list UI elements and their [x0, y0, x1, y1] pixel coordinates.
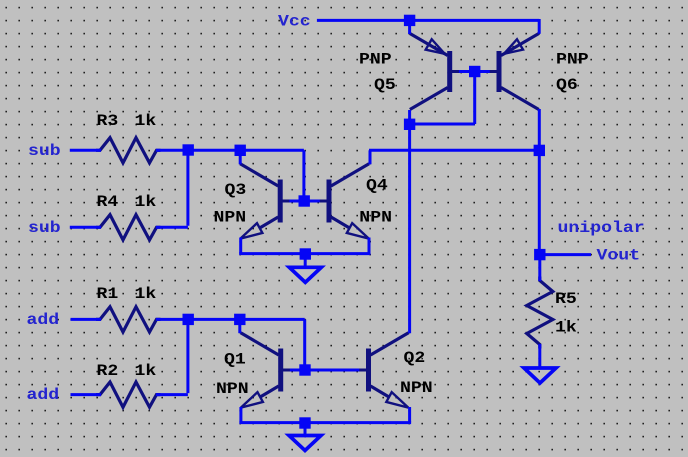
- wire row3 net to bases Q1Q2: [156, 319, 305, 370]
- node Q3Q4 base: [299, 195, 310, 206]
- wire row1 net to bases Q3Q4: [156, 150, 304, 201]
- svg-text:add: add: [27, 311, 60, 329]
- wire R4 to row1 node: [156, 150, 188, 227]
- svg-text:1k: 1k: [135, 285, 157, 303]
- node Q1Q2 emitter: [299, 417, 310, 428]
- resistor R5: [527, 277, 553, 349]
- wire main vertical Q5C to Q2C: [408, 123, 411, 333]
- wire add row3 lead: [71, 318, 102, 321]
- svg-text:Q2: Q2: [404, 349, 426, 367]
- svg-text:sub: sub: [28, 142, 61, 160]
- wire sub row2 lead: [70, 226, 101, 229]
- svg-text:Q6: Q6: [556, 76, 578, 94]
- svg-text:1k: 1k: [135, 362, 157, 380]
- wire Q6 collector down to Vout node: [538, 109, 541, 255]
- svg-text:Q4: Q4: [366, 177, 388, 195]
- transistor Q6: [485, 34, 539, 110]
- wire Q1-Q2 base rail: [290, 369, 359, 372]
- node Q1Q2 base: [299, 364, 310, 375]
- transistor Q5: [410, 34, 464, 110]
- svg-text:R1: R1: [97, 285, 119, 303]
- wire Q4 collector stub: [369, 150, 372, 164]
- wire Q5 collector node stub: [408, 110, 411, 125]
- svg-text:sub: sub: [28, 219, 61, 237]
- node Q5Q6 bases: [469, 66, 480, 77]
- svg-text:NPN: NPN: [216, 380, 249, 398]
- wire Q3 emitter stub: [239, 238, 242, 254]
- svg-text:Q5: Q5: [374, 76, 396, 94]
- node Q5 collector: [404, 119, 415, 130]
- wire add row4 lead: [71, 393, 102, 396]
- node Q4-Q6 collectors: [534, 145, 545, 156]
- wire base to collector tie Q5: [409, 72, 475, 125]
- resistor R1: [96, 307, 161, 332]
- svg-text:PNP: PNP: [556, 51, 589, 69]
- wire Q1 collector stub: [238, 319, 241, 333]
- ground R5: [524, 368, 556, 383]
- svg-text:Vcc: Vcc: [278, 13, 311, 31]
- svg-text:R4: R4: [97, 193, 119, 211]
- wire Vout lead: [545, 253, 591, 256]
- wire Vcc rail: [317, 19, 539, 34]
- wire Vout node to R5: [538, 254, 541, 281]
- svg-text:NPN: NPN: [359, 209, 392, 227]
- node Q1 collector-base tie: [234, 314, 245, 325]
- svg-text:1k: 1k: [555, 319, 577, 337]
- svg-text:R3: R3: [97, 112, 119, 130]
- svg-text:Vout: Vout: [597, 246, 641, 264]
- ground Q3Q4 emitters: [289, 267, 321, 282]
- svg-text:NPN: NPN: [214, 209, 247, 227]
- transistor Q2: [355, 333, 409, 408]
- wire R2 to row3 node: [156, 319, 188, 394]
- svg-text:Q1: Q1: [224, 351, 246, 369]
- resistor R4: [96, 215, 161, 240]
- svg-text:NPN: NPN: [400, 379, 433, 397]
- wire Q4C to Q6C rail: [369, 149, 539, 152]
- wire Q1Q2 emitter rail: [239, 421, 411, 424]
- wire Q4 emitter stub: [368, 238, 371, 254]
- svg-text:R2: R2: [97, 362, 119, 380]
- resistor R2: [96, 382, 161, 407]
- svg-text:1k: 1k: [135, 193, 157, 211]
- wire Q3 collector stub: [239, 150, 242, 164]
- wire ground stub Q1Q2: [304, 423, 307, 436]
- wire Q5-Q6 base rail: [459, 70, 490, 73]
- svg-text:add: add: [27, 386, 60, 404]
- node Vout junction: [534, 249, 545, 260]
- wire Q1 emitter stub: [239, 407, 242, 423]
- node R1-R2 join: [183, 314, 194, 325]
- transistor Q1: [241, 333, 295, 408]
- node Vcc junction: [404, 15, 415, 26]
- svg-text:PNP: PNP: [359, 51, 392, 69]
- wire sub row1 lead: [70, 149, 101, 152]
- wire ground stub Q3Q4: [304, 254, 307, 268]
- wire Q2 emitter stub: [408, 407, 411, 423]
- wire R5 to ground: [538, 344, 541, 368]
- svg-text:unipolar: unipolar: [558, 219, 645, 237]
- transistor Q3: [240, 164, 294, 239]
- node R3-R4 join: [183, 144, 194, 155]
- svg-text:1k: 1k: [135, 112, 157, 130]
- wire Q3Q4 emitter rail: [239, 252, 370, 255]
- transistor Q4: [315, 164, 369, 239]
- svg-text:Q3: Q3: [225, 181, 247, 199]
- node Q3Q4 emitter: [300, 248, 311, 259]
- node Q3 collector-base tie: [235, 145, 246, 156]
- wire Q5 emitter stub: [408, 22, 411, 34]
- ground Q1Q2 emitters: [289, 436, 321, 451]
- resistor R3: [96, 138, 161, 163]
- wire Q3-Q4 base rail: [289, 200, 319, 203]
- svg-text:R5: R5: [555, 290, 577, 308]
